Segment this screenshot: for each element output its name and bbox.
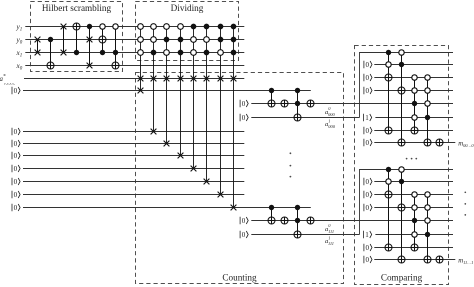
dividing column 1 ctrl pattern (0, 0, 0) cswap a*-wire1 — [140, 27, 142, 91]
wire lower 2 — [23, 143, 244, 145]
CNOT x1 -> y1 — [76, 27, 78, 53]
svg-text:0: 0 — [14, 178, 18, 186]
counting top X gate on B — [281, 100, 288, 107]
Counting box — [136, 73, 344, 284]
svg-text:0: 0 — [366, 204, 370, 212]
svg-text:0: 0 — [14, 191, 18, 199]
ket |0> comparing top w4 — [364, 87, 372, 95]
wire counting B — [251, 103, 453, 105]
wire y1 — [25, 26, 244, 28]
svg-text:0: 0 — [366, 178, 370, 186]
svg-text:0: 0 — [366, 61, 370, 69]
ket |0> lower wire 2 — [12, 140, 20, 148]
swap gate y0-x1 — [37, 40, 39, 53]
ket |0> counting C — [240, 114, 248, 122]
counting top Toffoli A,B->C — [297, 91, 299, 118]
ket |0> lower wire 1 — [12, 128, 20, 136]
wire a* — [24, 78, 244, 80]
comparing bottom column 3 — [414, 195, 416, 248]
swap gate y1-x1 — [63, 27, 65, 53]
wire comparing top w8 (m output) — [374, 142, 455, 144]
wire lower 3 — [23, 155, 244, 157]
ket |0> lower wire 6 — [12, 191, 20, 199]
svg-text:0: 0 — [14, 140, 18, 148]
dividing column 4 ctrl pattern (0, 1, 1) cswap a*-wire4 — [180, 27, 182, 156]
svg-text:0: 0 — [366, 256, 370, 264]
ket |0> counting B — [240, 100, 248, 108]
Fredkin ctrl y1 swap y0-x0 — [89, 27, 91, 66]
svg-text:1: 1 — [365, 114, 369, 122]
svg-text:0: 0 — [242, 100, 246, 108]
wire counting B2 — [251, 220, 453, 222]
svg-text:0: 0 — [366, 191, 370, 199]
ket |0> lower wire 5 — [12, 178, 20, 186]
ket |0> lower wire 7 — [12, 204, 20, 212]
ket |0> comparing bottom w7 — [364, 244, 372, 252]
comparing top column 2 — [401, 53, 403, 143]
svg-text:0: 0 — [14, 152, 18, 160]
comparing bottom X gate on w8 — [436, 256, 443, 263]
ket |0> comparing top w3 — [364, 74, 372, 82]
ket |0> comparing bottom w2 — [364, 178, 372, 186]
svg-text:0: 0 — [242, 217, 246, 225]
comparing bottom column 4 — [427, 195, 429, 260]
wire comparing bottom w4 — [374, 207, 453, 209]
svg-text:0: 0 — [366, 244, 370, 252]
wire lower 1 — [23, 131, 244, 133]
vertical dots counting middle — [290, 152, 292, 154]
wire lower 6 — [23, 194, 244, 196]
comparing top column 3 — [414, 78, 416, 131]
wire comparing bottom w3 — [374, 194, 453, 196]
counting bottom X gate on B — [281, 217, 288, 224]
ket |0> comparing bottom w4 — [364, 204, 372, 212]
wire comparing top w3 — [374, 77, 453, 79]
svg-text:Comparing: Comparing — [381, 273, 423, 283]
wire lower 4 — [23, 168, 244, 170]
ket |0> counting C2 — [240, 231, 248, 239]
comparing bottom column 1 — [388, 170, 390, 248]
counting top X gate on B (2) — [307, 100, 314, 107]
wire comparing bottom w8 (m output) — [374, 259, 455, 261]
svg-text:0: 0 — [14, 128, 18, 136]
wire comparing top w2 — [374, 64, 453, 66]
ket |0> comparing top w7 — [364, 127, 372, 135]
Dividing box — [136, 2, 239, 61]
ket |1> comparing top w6 — [364, 114, 372, 122]
counting top CNOT A->B — [271, 91, 273, 104]
wire comparing bottom w2 — [374, 181, 453, 183]
dividing column 8 ctrl pattern (1, 1, 1) cswap a*-wire8 — [233, 27, 235, 208]
wire counting C2 — [251, 234, 359, 236]
svg-text:0: 0 — [14, 165, 18, 173]
dividing column 2 ctrl pattern (0, 0, 1) cswap a*-wire2 — [153, 27, 155, 132]
comparing top column 4 — [427, 78, 429, 143]
wire y0 — [25, 39, 244, 41]
dividing column 6 ctrl pattern (1, 0, 1) cswap a*-wire6 — [206, 27, 208, 182]
svg-text:0: 0 — [14, 204, 18, 212]
ket |1> comparing bottom w6 — [364, 231, 372, 239]
CNOT y0 -> x0 — [50, 40, 52, 66]
svg-text:Hilbert scrambling: Hilbert scrambling — [42, 3, 112, 13]
comparing bottom column 2 — [401, 170, 403, 260]
wire comparing bottom w7 — [374, 247, 453, 249]
wire x1 — [25, 52, 244, 54]
Toffoli open-y1 ctrl-x1 target y0 — [102, 27, 104, 53]
wire comparing bottom w6 — [375, 234, 453, 236]
ket |0> comparing top w2 — [364, 61, 372, 69]
comparing top column 1 — [388, 53, 390, 131]
comparing top X gate on w8 — [436, 139, 443, 146]
dividing column 3 ctrl pattern (0, 1, 0) cswap a*-wire3 — [166, 27, 168, 144]
svg-text:0: 0 — [366, 87, 370, 95]
ket |0> counting B2 — [240, 217, 248, 225]
wire comparing top w4 — [374, 90, 453, 92]
counting bottom X gate on B (2) — [307, 217, 314, 224]
bend wire bottom block — [360, 170, 454, 235]
ket |0> ancilla a — [12, 87, 20, 95]
wire ancilla A — [23, 90, 311, 92]
svg-text:0: 0 — [366, 139, 370, 147]
ket |0> comparing bottom w8 — [364, 256, 372, 264]
wire x0 — [25, 65, 244, 67]
horizontal dots comparing middle — [406, 158, 408, 160]
svg-text:Counting: Counting — [222, 273, 257, 283]
dividing column 7 ctrl pattern (1, 1, 0) cswap a*-wire7 — [220, 27, 222, 195]
wire lower 7 (A2) — [23, 207, 311, 209]
wire lower 5 — [23, 181, 244, 183]
wire comparing top w6 — [375, 117, 453, 119]
svg-text:0: 0 — [366, 74, 370, 82]
Hilbert scrambling box — [31, 2, 123, 72]
svg-text:Dividing: Dividing — [171, 3, 204, 13]
svg-text:0: 0 — [14, 87, 18, 95]
ket |0> comparing bottom w3 — [364, 191, 372, 199]
svg-text:1: 1 — [365, 231, 369, 239]
dividing column 5 ctrl pattern (1, 0, 0) cswap a*-wire5 — [193, 27, 195, 169]
Comparing box — [355, 46, 449, 285]
svg-text:0: 0 — [242, 231, 246, 239]
svg-text:0: 0 — [242, 114, 246, 122]
ket |0> comparing top w8 — [364, 139, 372, 147]
vertical dots right edge — [464, 191, 466, 193]
ket |0> lower wire 4 — [12, 165, 20, 173]
Toffoli open-y1 ctrl-x1 target x0 — [115, 27, 117, 66]
counting bottom CNOT A->B — [271, 208, 273, 221]
wire comparing top w7 — [374, 130, 453, 132]
bend wire top block — [360, 53, 454, 118]
svg-text:0: 0 — [366, 127, 370, 135]
wire counting C — [251, 117, 359, 119]
ket |0> lower wire 3 — [12, 152, 20, 160]
counting bottom Toffoli A,B->C — [297, 208, 299, 235]
